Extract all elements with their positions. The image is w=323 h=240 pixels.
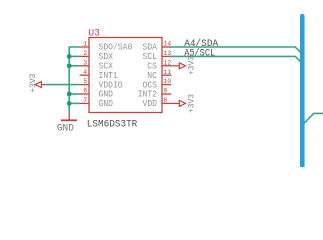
svg-text:1: 1 bbox=[83, 41, 87, 48]
wire +3V3 to VDDIO bbox=[44, 84, 80, 86]
supply +3V3 left lead bbox=[41, 84, 44, 86]
wire bottom-right to bus bbox=[304, 113, 323, 123]
pin 3 SCX stub bbox=[80, 65, 89, 67]
svg-text:3: 3 bbox=[83, 59, 87, 66]
svg-text:7: 7 bbox=[83, 97, 87, 104]
wire pin7 to rail bbox=[69, 102, 79, 104]
pin 4 INT1 stub bbox=[80, 74, 89, 76]
junction dot pin6 bbox=[67, 92, 72, 97]
svg-text:12: 12 bbox=[163, 59, 171, 66]
pin 8 VDD stub bbox=[162, 102, 171, 104]
wire A4/SDA net bbox=[169, 47, 302, 54]
svg-text:4: 4 bbox=[83, 69, 87, 76]
svg-text:10: 10 bbox=[163, 78, 171, 85]
svg-text:11: 11 bbox=[163, 69, 171, 76]
pin 11 NC stub bbox=[162, 74, 171, 76]
IC U3 body bbox=[89, 38, 162, 113]
svg-text:LSM6DS3TR: LSM6DS3TR bbox=[87, 119, 138, 131]
supply +3V3 pin8 lead bbox=[171, 102, 179, 104]
supply +3V3 pin8 arrow bbox=[179, 100, 185, 106]
pin 2 SDX stub bbox=[80, 55, 89, 57]
pin 7 GND stub bbox=[80, 102, 89, 104]
wire pin6 to rail bbox=[69, 93, 79, 95]
pin 13 SCL stub bbox=[162, 55, 171, 57]
svg-text:VDD: VDD bbox=[143, 99, 158, 109]
bus B1 (I2C bus, right edge) bbox=[300, 16, 305, 167]
svg-text:+3V3: +3V3 bbox=[187, 94, 197, 113]
junction dot pin3 bbox=[67, 63, 72, 68]
ground GND symbol bar bbox=[61, 119, 77, 121]
svg-text:9: 9 bbox=[163, 88, 167, 95]
wire pin2 to rail bbox=[69, 55, 79, 57]
wire pin3 to rail bbox=[69, 65, 79, 67]
svg-text:+3V3: +3V3 bbox=[28, 74, 38, 93]
pin 5 VDDIO stub bbox=[80, 84, 89, 86]
supply +3V3 pin12 lead bbox=[171, 65, 179, 67]
pin 1 SDO/SA0 stub bbox=[80, 46, 89, 48]
svg-text:5: 5 bbox=[83, 78, 87, 85]
ground GND symbol stem bbox=[68, 112, 70, 119]
supply +3V3 left arrow bbox=[35, 82, 41, 88]
wire A5/SCL net bbox=[169, 56, 302, 63]
svg-text:GND: GND bbox=[99, 99, 114, 109]
pin 6 GND stub bbox=[80, 93, 89, 95]
wire GND rail vertical bbox=[69, 47, 79, 112]
svg-text:2: 2 bbox=[83, 50, 87, 57]
pin 10 OCS stub bbox=[162, 84, 171, 86]
pin 12 CS stub bbox=[162, 65, 171, 67]
supply +3V3 pin12 arrow bbox=[179, 63, 185, 69]
svg-text:+3V3: +3V3 bbox=[187, 56, 197, 75]
junction dot pin2 bbox=[67, 54, 72, 59]
junction dot pin7 bbox=[67, 101, 72, 106]
pin 14 SDA stub bbox=[162, 46, 171, 48]
svg-text:8: 8 bbox=[163, 97, 167, 104]
pin 9 INT2 stub bbox=[162, 93, 171, 95]
svg-text:GND: GND bbox=[57, 123, 74, 134]
svg-text:6: 6 bbox=[83, 88, 87, 95]
svg-text:U3: U3 bbox=[88, 28, 100, 40]
